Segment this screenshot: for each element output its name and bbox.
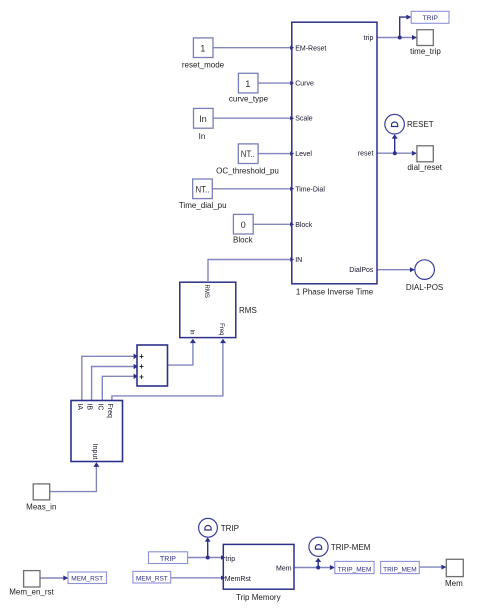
- svg-text:Time-Dial: Time-Dial: [295, 186, 325, 193]
- svg-text:IB: IB: [86, 404, 93, 411]
- svg-text:In: In: [189, 329, 195, 334]
- svg-text:0: 0: [241, 220, 246, 230]
- svg-text:Input: Input: [91, 444, 98, 460]
- svg-text:Scale: Scale: [295, 116, 313, 123]
- svg-text:1 Phase Inverse Time: 1 Phase Inverse Time: [296, 288, 374, 297]
- svg-text:+: +: [139, 372, 144, 381]
- svg-text:Time_dial_pu: Time_dial_pu: [179, 201, 227, 210]
- svg-text:NT..: NT..: [196, 184, 210, 194]
- svg-text:trip: trip: [225, 556, 235, 563]
- svg-text:Mem: Mem: [445, 579, 463, 588]
- svg-text:MEM_RST: MEM_RST: [71, 575, 103, 582]
- svg-text:+: +: [139, 362, 144, 371]
- svg-text:Level: Level: [295, 151, 312, 158]
- svg-text:curve_type: curve_type: [229, 95, 269, 104]
- svg-text:TRIP: TRIP: [221, 524, 239, 533]
- svg-text:DIAL-POS: DIAL-POS: [406, 283, 443, 292]
- svg-text:IN: IN: [295, 257, 302, 264]
- svg-text:EM-Reset: EM-Reset: [295, 45, 326, 52]
- svg-text:Mem_en_rst: Mem_en_rst: [9, 587, 54, 596]
- svg-text:IC: IC: [96, 404, 103, 411]
- svg-text:trip: trip: [364, 35, 374, 42]
- svg-text:dial_reset: dial_reset: [407, 163, 442, 172]
- svg-text:Mem: Mem: [276, 565, 292, 572]
- svg-text:RMS: RMS: [239, 306, 257, 315]
- svg-text:TRIP: TRIP: [422, 15, 438, 22]
- svg-text:In: In: [199, 132, 206, 141]
- svg-text:MemRst: MemRst: [225, 576, 251, 583]
- svg-text:Trip Memory: Trip Memory: [236, 593, 281, 602]
- svg-text:MEM_RST: MEM_RST: [136, 576, 168, 583]
- svg-text:TRIP_MEM: TRIP_MEM: [383, 566, 417, 573]
- svg-text:time_trip: time_trip: [410, 47, 441, 56]
- svg-text:In: In: [199, 114, 207, 124]
- svg-text:DialPos: DialPos: [349, 267, 374, 274]
- svg-text:TRIP: TRIP: [160, 556, 176, 563]
- svg-text:Freq: Freq: [106, 404, 113, 419]
- svg-text:IA: IA: [76, 404, 83, 411]
- svg-text:RESET: RESET: [407, 120, 434, 129]
- svg-text:TRIP-MEM: TRIP-MEM: [331, 543, 371, 552]
- svg-text:Block: Block: [295, 222, 313, 229]
- svg-text:Curve: Curve: [295, 81, 314, 88]
- svg-text:Block: Block: [233, 236, 254, 245]
- svg-text:OC_threshold_pu: OC_threshold_pu: [216, 167, 279, 176]
- svg-text:1: 1: [245, 79, 250, 89]
- svg-text:1: 1: [200, 44, 205, 54]
- svg-text:Meas_in: Meas_in: [26, 503, 56, 512]
- svg-text:reset: reset: [358, 151, 374, 158]
- svg-text:RMS: RMS: [203, 285, 209, 298]
- svg-text:Freq: Freq: [218, 323, 224, 335]
- svg-text:reset_mode: reset_mode: [182, 61, 225, 70]
- svg-text:+: +: [139, 352, 144, 361]
- svg-text:TRIP_MEM: TRIP_MEM: [338, 566, 372, 573]
- svg-text:NT..: NT..: [241, 149, 255, 159]
